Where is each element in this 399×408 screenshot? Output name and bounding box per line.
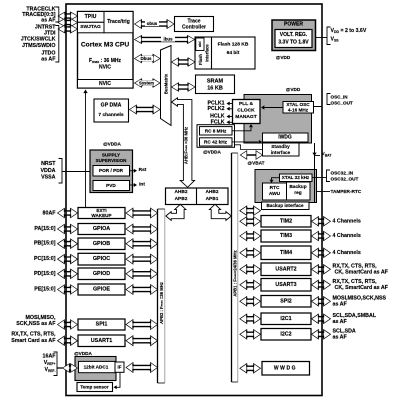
svg-text:@VDDA: @VDDA [74,351,92,356]
svg-text:VSS: VSS [331,37,340,43]
svg-text:WAKEUP: WAKEUP [91,213,111,218]
svg-text:as AF: as AF [333,301,348,307]
svg-text:SPI2: SPI2 [280,298,292,304]
svg-text:obl: obl [198,41,202,47]
svg-text:@VDDA: @VDDA [203,150,221,155]
svg-text:SUPERVISION: SUPERVISION [96,158,127,163]
svg-text:@VBAT: @VBAT [248,161,265,166]
svg-text:TIM2: TIM2 [280,218,292,224]
svg-text:GPIOC: GPIOC [93,256,110,262]
svg-text:VOLT. REG.: VOLT. REG. [280,32,308,38]
svg-text:PVD: PVD [106,183,116,188]
svg-text:BusMatrix: BusMatrix [164,73,169,94]
svg-text:USART1: USART1 [91,338,113,344]
svg-text:VSSA: VSSA [41,174,56,180]
svg-text:SRAM: SRAM [207,79,224,85]
svg-text:4 Channels: 4 Channels [333,218,361,224]
svg-text:Smart Card as AF: Smart Card as AF [11,338,56,344]
svg-text:AWU: AWU [269,191,281,197]
svg-text:CK, SmartCard as AF: CK, SmartCard as AF [335,285,389,291]
svg-text:RX,TX, CTS, RTS,: RX,TX, CTS, RTS, [11,332,56,338]
svg-text:reg: reg [294,190,302,196]
svg-text:OSC_IN: OSC_IN [331,95,349,100]
svg-text:JTCK/SWCLK: JTCK/SWCLK [21,37,56,43]
svg-text:VDDA: VDDA [40,168,55,174]
svg-text:Int: Int [139,182,145,188]
svg-text:interface: interface [205,44,210,62]
svg-text:EXTI: EXTI [96,208,106,213]
svg-text:Flash 128 KB: Flash 128 KB [218,42,249,48]
svg-text:RTC: RTC [270,185,280,191]
svg-text:VBAT: VBAT [322,151,333,158]
svg-text:@VDD: @VDD [286,87,301,92]
svg-text:POR / PDR: POR / PDR [99,168,124,173]
svg-text:POWER: POWER [284,22,303,28]
svg-text:PD[15:0]: PD[15:0] [34,271,56,277]
svg-text:OSC_OUT: OSC_OUT [331,100,353,105]
svg-text:@VDD: @VDD [276,55,291,60]
svg-text:3.3V TO 1.8V: 3.3V TO 1.8V [278,40,309,46]
svg-text:NVIC: NVIC [99,81,111,87]
svg-text:FCLK: FCLK [211,119,225,125]
svg-text:TIM4: TIM4 [280,250,292,256]
svg-text:Standby: Standby [271,144,290,149]
svg-text:AHB2: AHB2 [174,189,187,195]
svg-text:as AF: as AF [41,17,56,23]
svg-text:USART3: USART3 [275,282,296,288]
svg-text:80AF: 80AF [43,210,57,216]
svg-text:GPIOB: GPIOB [93,241,110,247]
svg-text:NRST: NRST [41,161,56,167]
svg-text:Flash: Flash [198,54,203,65]
svg-text:PE[15:0]: PE[15:0] [34,287,55,293]
svg-text:WWDG: WWDG [274,365,297,371]
svg-text:OSC32_OUT: OSC32_OUT [331,177,359,182]
svg-text:XTAL 32 kHz: XTAL 32 kHz [282,175,310,180]
svg-text:APB1 : Fmax=24/36 MHz: APB1 : Fmax=24/36 MHz [233,250,238,296]
svg-text:Backup: Backup [289,184,306,190]
svg-text:64 bit: 64 bit [227,50,240,56]
svg-text:obus: obus [147,21,158,26]
svg-text:I2C1: I2C1 [280,316,291,322]
svg-text:Rst: Rst [139,167,147,173]
svg-text:MANAGT: MANAGT [235,114,256,120]
svg-text:PLL &: PLL & [239,101,254,107]
svg-text:System: System [139,81,154,86]
svg-text:GPIOD: GPIOD [93,271,110,277]
svg-text:RC 8 MHz: RC 8 MHz [205,128,227,133]
svg-text:XTAL OSC: XTAL OSC [286,102,310,107]
svg-text:APB1: APB1 [206,196,219,202]
svg-text:TAMPER-RTC: TAMPER-RTC [331,189,362,194]
svg-text:GPIOE: GPIOE [93,287,110,293]
svg-text:@VDDA: @VDDA [103,142,121,147]
svg-text:VREF+: VREF+ [44,360,56,366]
svg-text:12bit ADC1: 12bit ADC1 [84,365,109,370]
svg-text:JTMS/SWDIO: JTMS/SWDIO [22,43,56,49]
svg-text:GPIOA: GPIOA [93,226,110,232]
svg-text:RC 42 kHz: RC 42 kHz [204,139,228,144]
svg-text:AHB2: AHB2 [205,189,218,195]
svg-text:IF: IF [118,365,122,370]
svg-text:interface: interface [271,150,291,155]
svg-text:APB2 : Fmax =36 MHz: APB2 : Fmax =36 MHz [159,282,164,324]
svg-text:7 channels: 7 channels [98,112,124,118]
svg-text:PC[15:0]: PC[15:0] [34,256,56,262]
svg-text:I2C2: I2C2 [280,331,291,337]
svg-text:PB[15:0]: PB[15:0] [34,241,56,247]
svg-text:APB2: APB2 [175,196,188,202]
svg-text:Temp sensor: Temp sensor [80,385,108,390]
svg-text:PA[15:0]: PA[15:0] [34,226,55,232]
svg-text:SCK,NSS as AF: SCK,NSS as AF [16,321,56,327]
svg-text:Controller: Controller [182,25,206,31]
svg-text:IWDG: IWDG [278,135,292,141]
svg-text:CLOCK: CLOCK [237,108,255,114]
svg-text:Cortex M3 CPU: Cortex M3 CPU [81,42,129,49]
svg-text:as AF: as AF [333,319,348,325]
svg-text:ibus: ibus [163,37,173,42]
svg-text:as AF: as AF [333,334,348,340]
svg-text:CK, SmartCard as AF: CK, SmartCard as AF [335,269,389,275]
svg-text:as AF: as AF [41,57,56,63]
svg-text:4-16 MHz: 4-16 MHz [288,108,309,113]
svg-text:Dbus: Dbus [141,56,153,61]
svg-text:SPI1: SPI1 [96,322,108,328]
svg-text:SUPPLY: SUPPLY [102,153,121,158]
svg-text:AHB:Fmax =36 MHz: AHB:Fmax =36 MHz [184,127,189,164]
svg-text:NVIC: NVIC [99,65,111,71]
svg-text:4 Channels: 4 Channels [333,233,361,239]
svg-text:Trace/trig: Trace/trig [107,19,130,25]
svg-text:OSC32_IN: OSC32_IN [331,171,354,176]
svg-text:PCLK2: PCLK2 [207,106,224,112]
svg-text:4 Channels: 4 Channels [333,250,361,256]
svg-text:GP DMA: GP DMA [101,103,122,109]
svg-text:16AF: 16AF [43,354,57,360]
svg-text:VDD = 2 to 3.6V: VDD = 2 to 3.6V [331,28,367,34]
svg-text:VREF-: VREF- [45,367,56,373]
svg-text:USART2: USART2 [275,266,296,272]
svg-text:16 KB: 16 KB [207,86,223,92]
svg-text:Backup interface: Backup interface [266,203,303,208]
svg-text:TIM3: TIM3 [280,233,292,239]
svg-text:TPIU: TPIU [85,14,97,20]
svg-text:SWJTAG: SWJTAG [80,24,101,30]
